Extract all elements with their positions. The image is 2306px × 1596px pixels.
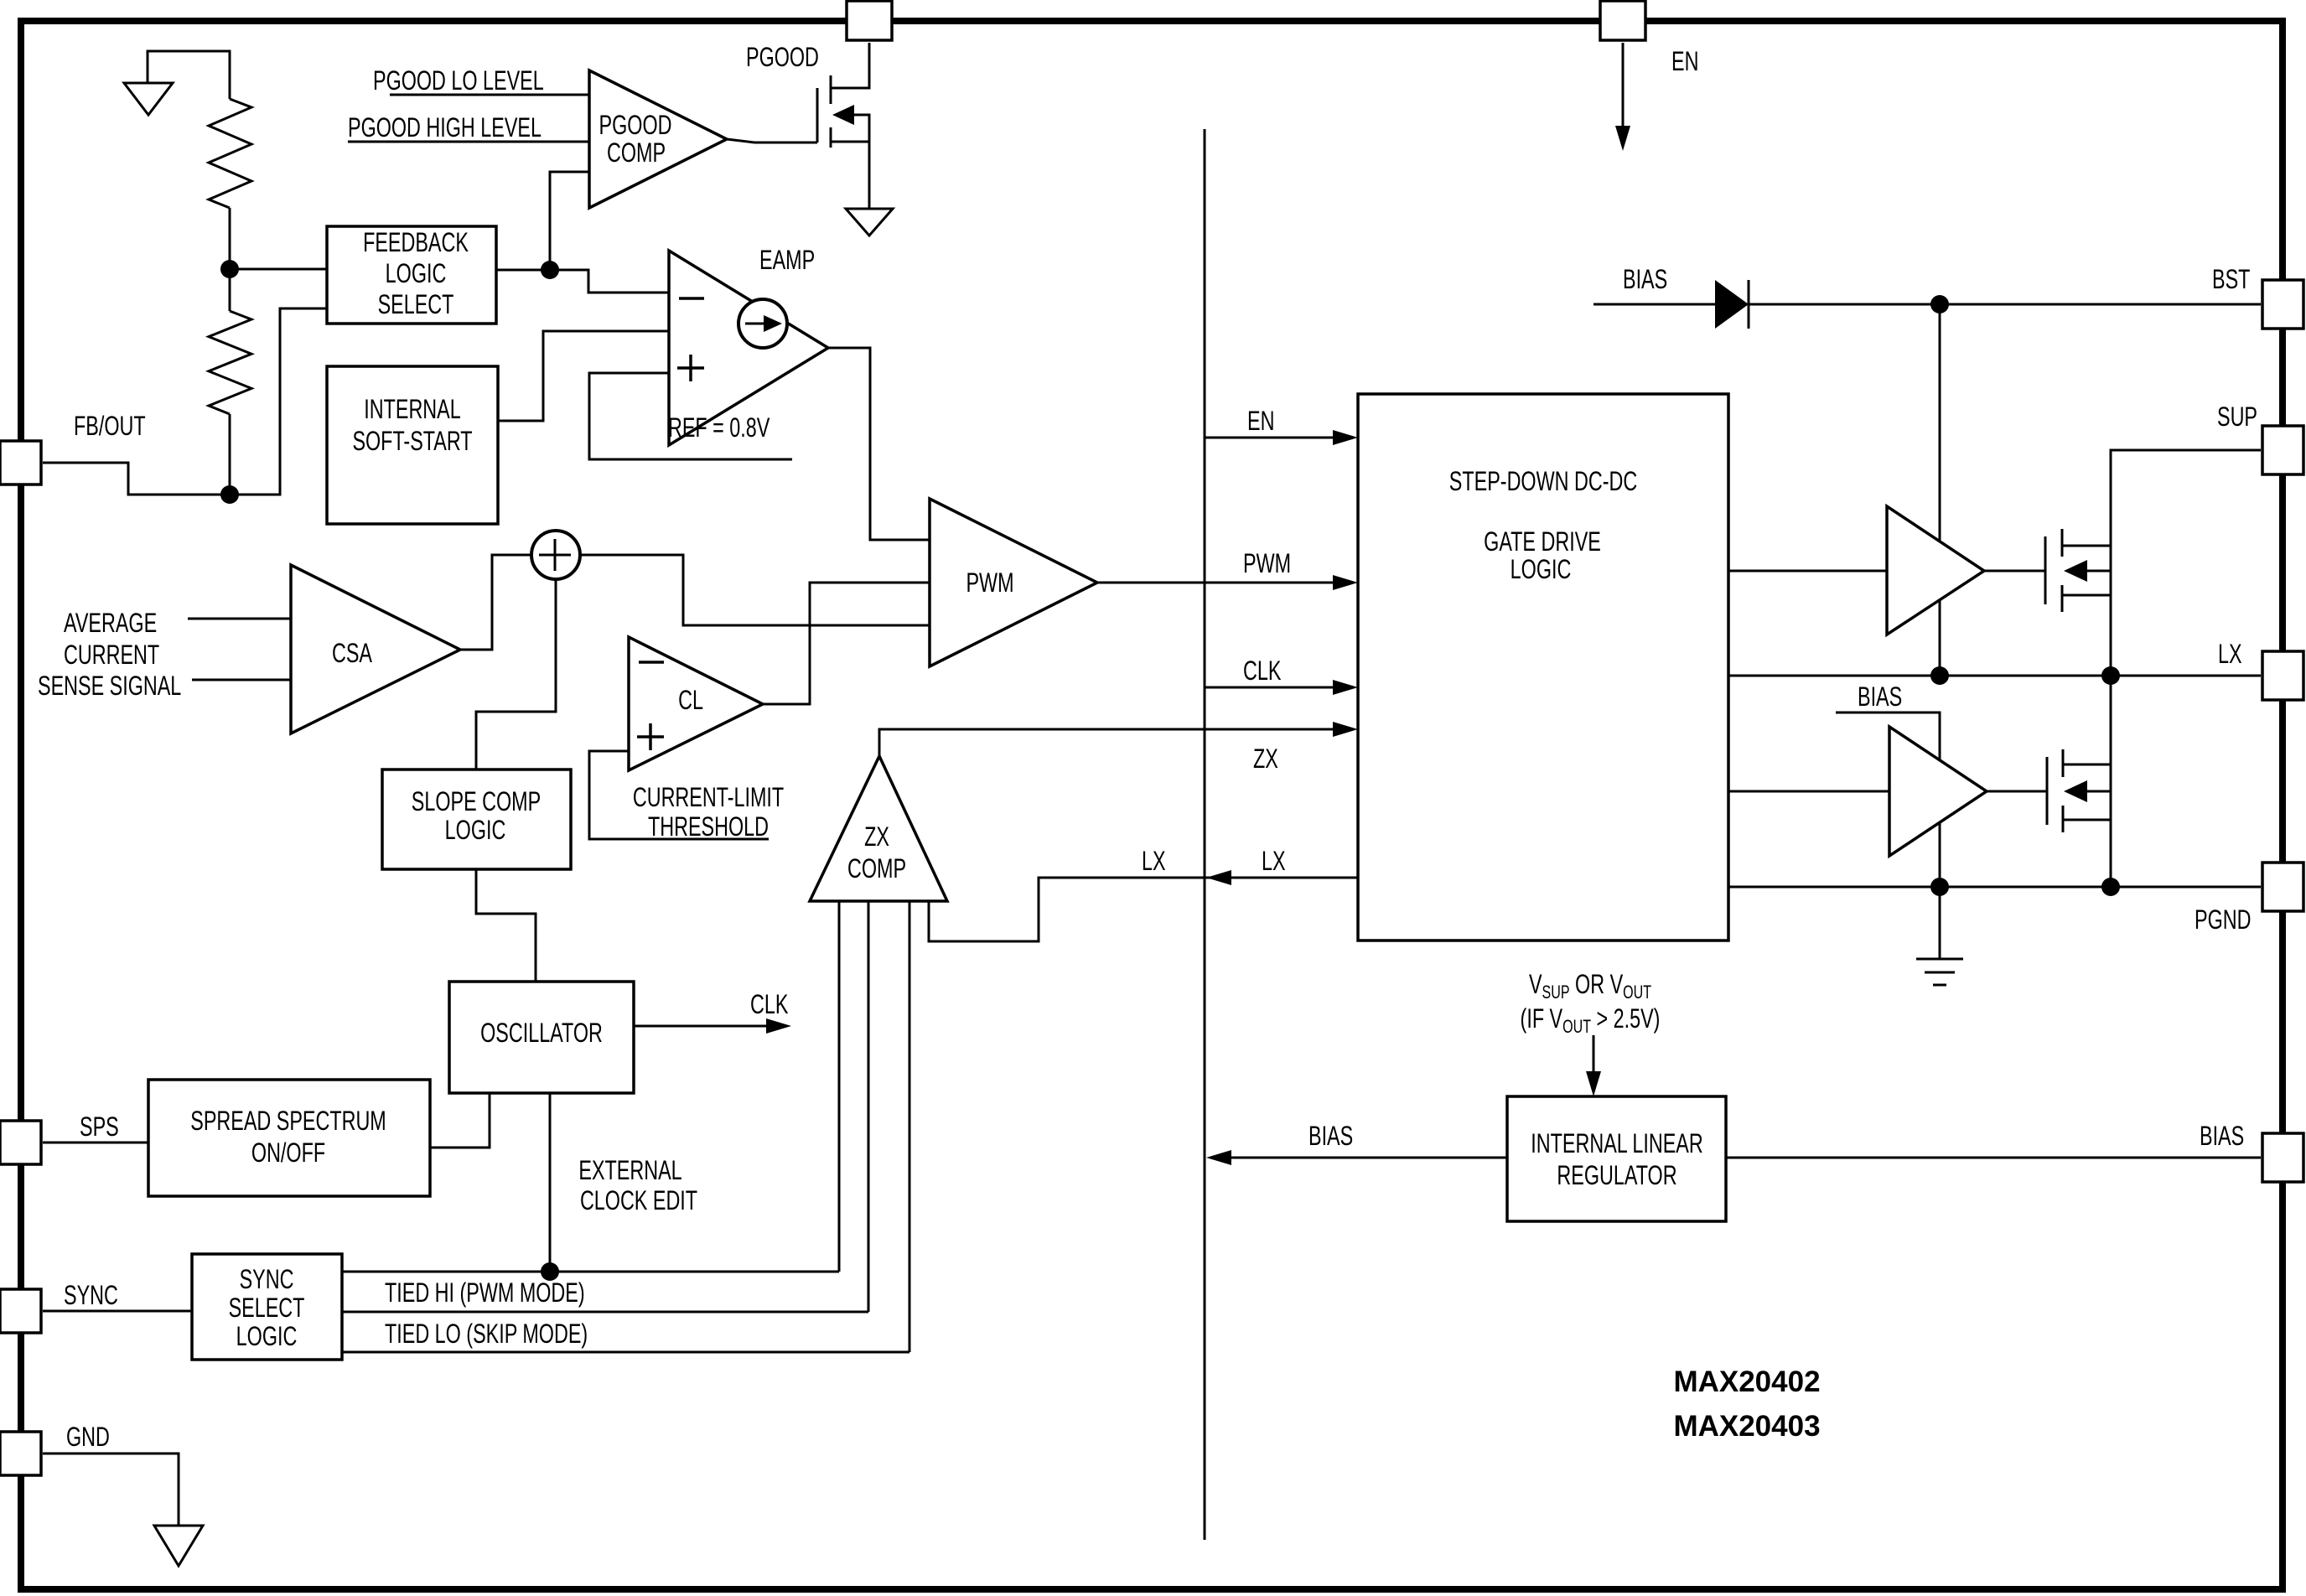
- svg-text:FEEDBACK: FEEDBACK: [363, 227, 469, 256]
- svg-text:PGOOD: PGOOD: [599, 110, 672, 139]
- svg-text:LOGIC: LOGIC: [445, 815, 506, 844]
- svg-text:CURRENT: CURRENT: [64, 640, 159, 669]
- svg-text:CURRENT-LIMIT: CURRENT-LIMIT: [633, 782, 784, 811]
- svg-text:STEP-DOWN DC-DC: STEP-DOWN DC-DC: [1449, 466, 1637, 495]
- svg-text:BIAS: BIAS: [1858, 681, 1902, 711]
- svg-text:EN: EN: [1671, 46, 1698, 75]
- svg-text:ZX: ZX: [1253, 744, 1278, 773]
- svg-text:ZX: ZX: [864, 821, 889, 851]
- svg-text:SPS: SPS: [80, 1111, 119, 1141]
- svg-text:FB/OUT: FB/OUT: [74, 411, 146, 440]
- svg-text:BIAS: BIAS: [1308, 1121, 1353, 1150]
- svg-text:LX: LX: [1262, 846, 1286, 875]
- svg-text:ON/OFF: ON/OFF: [251, 1137, 325, 1167]
- svg-text:SPREAD SPECTRUM: SPREAD SPECTRUM: [190, 1106, 386, 1135]
- svg-text:THRESHOLD: THRESHOLD: [648, 811, 769, 841]
- svg-text:EAMP: EAMP: [759, 245, 815, 274]
- svg-text:LOGIC: LOGIC: [1511, 554, 1572, 583]
- svg-text:AVERAGE: AVERAGE: [64, 608, 157, 637]
- svg-text:LOGIC: LOGIC: [236, 1321, 298, 1350]
- svg-text:MAX20402: MAX20402: [1673, 1365, 1820, 1398]
- svg-text:PGOOD LO LEVEL: PGOOD LO LEVEL: [373, 65, 544, 95]
- svg-text:PWM: PWM: [966, 567, 1013, 597]
- svg-text:SYNC: SYNC: [64, 1280, 118, 1309]
- svg-text:CLK: CLK: [1243, 655, 1282, 685]
- svg-text:PGOOD HIGH LEVEL: PGOOD HIGH LEVEL: [348, 112, 542, 142]
- svg-text:BIAS: BIAS: [1623, 264, 1667, 293]
- svg-text:SUP: SUP: [2217, 402, 2257, 431]
- svg-text:PGND: PGND: [2195, 904, 2251, 934]
- svg-text:BST: BST: [2212, 264, 2250, 293]
- svg-text:SYNC: SYNC: [240, 1264, 294, 1293]
- svg-text:CLOCK EDIT: CLOCK EDIT: [580, 1185, 697, 1215]
- svg-text:BIAS: BIAS: [2200, 1121, 2244, 1150]
- svg-text:INTERNAL: INTERNAL: [364, 394, 460, 423]
- svg-text:SENSE SIGNAL: SENSE SIGNAL: [38, 671, 181, 700]
- svg-text:REGULATOR: REGULATOR: [1557, 1160, 1676, 1189]
- svg-text:EXTERNAL: EXTERNAL: [578, 1155, 681, 1184]
- svg-text:SLOPE COMP: SLOPE COMP: [412, 786, 541, 816]
- svg-text:MAX20403: MAX20403: [1673, 1410, 1820, 1443]
- svg-text:TIED HI (PWM MODE): TIED HI (PWM MODE): [385, 1277, 585, 1307]
- svg-text:LOGIC: LOGIC: [386, 258, 447, 288]
- svg-text:LX: LX: [2218, 639, 2242, 668]
- svg-text:GND: GND: [66, 1422, 110, 1451]
- svg-text:REF = 0.8V: REF = 0.8V: [668, 412, 770, 442]
- svg-text:TIED LO (SKIP MODE): TIED LO (SKIP MODE): [385, 1319, 588, 1348]
- svg-text:SOFT-START: SOFT-START: [352, 426, 472, 455]
- svg-text:SELECT: SELECT: [229, 1293, 305, 1322]
- svg-text:OSCILLATOR: OSCILLATOR: [480, 1018, 603, 1047]
- svg-text:LX: LX: [1142, 846, 1166, 875]
- svg-text:CL: CL: [678, 685, 703, 714]
- svg-text:CSA: CSA: [332, 638, 372, 667]
- svg-text:CLK: CLK: [750, 989, 789, 1018]
- svg-text:COMP: COMP: [607, 137, 666, 167]
- svg-text:PWM: PWM: [1243, 548, 1291, 578]
- svg-text:INTERNAL LINEAR: INTERNAL LINEAR: [1531, 1128, 1702, 1158]
- svg-text:SELECT: SELECT: [378, 289, 454, 319]
- svg-text:COMP: COMP: [847, 853, 906, 883]
- svg-text:EN: EN: [1247, 406, 1274, 435]
- svg-text:GATE DRIVE: GATE DRIVE: [1484, 526, 1601, 556]
- svg-text:PGOOD: PGOOD: [746, 42, 819, 71]
